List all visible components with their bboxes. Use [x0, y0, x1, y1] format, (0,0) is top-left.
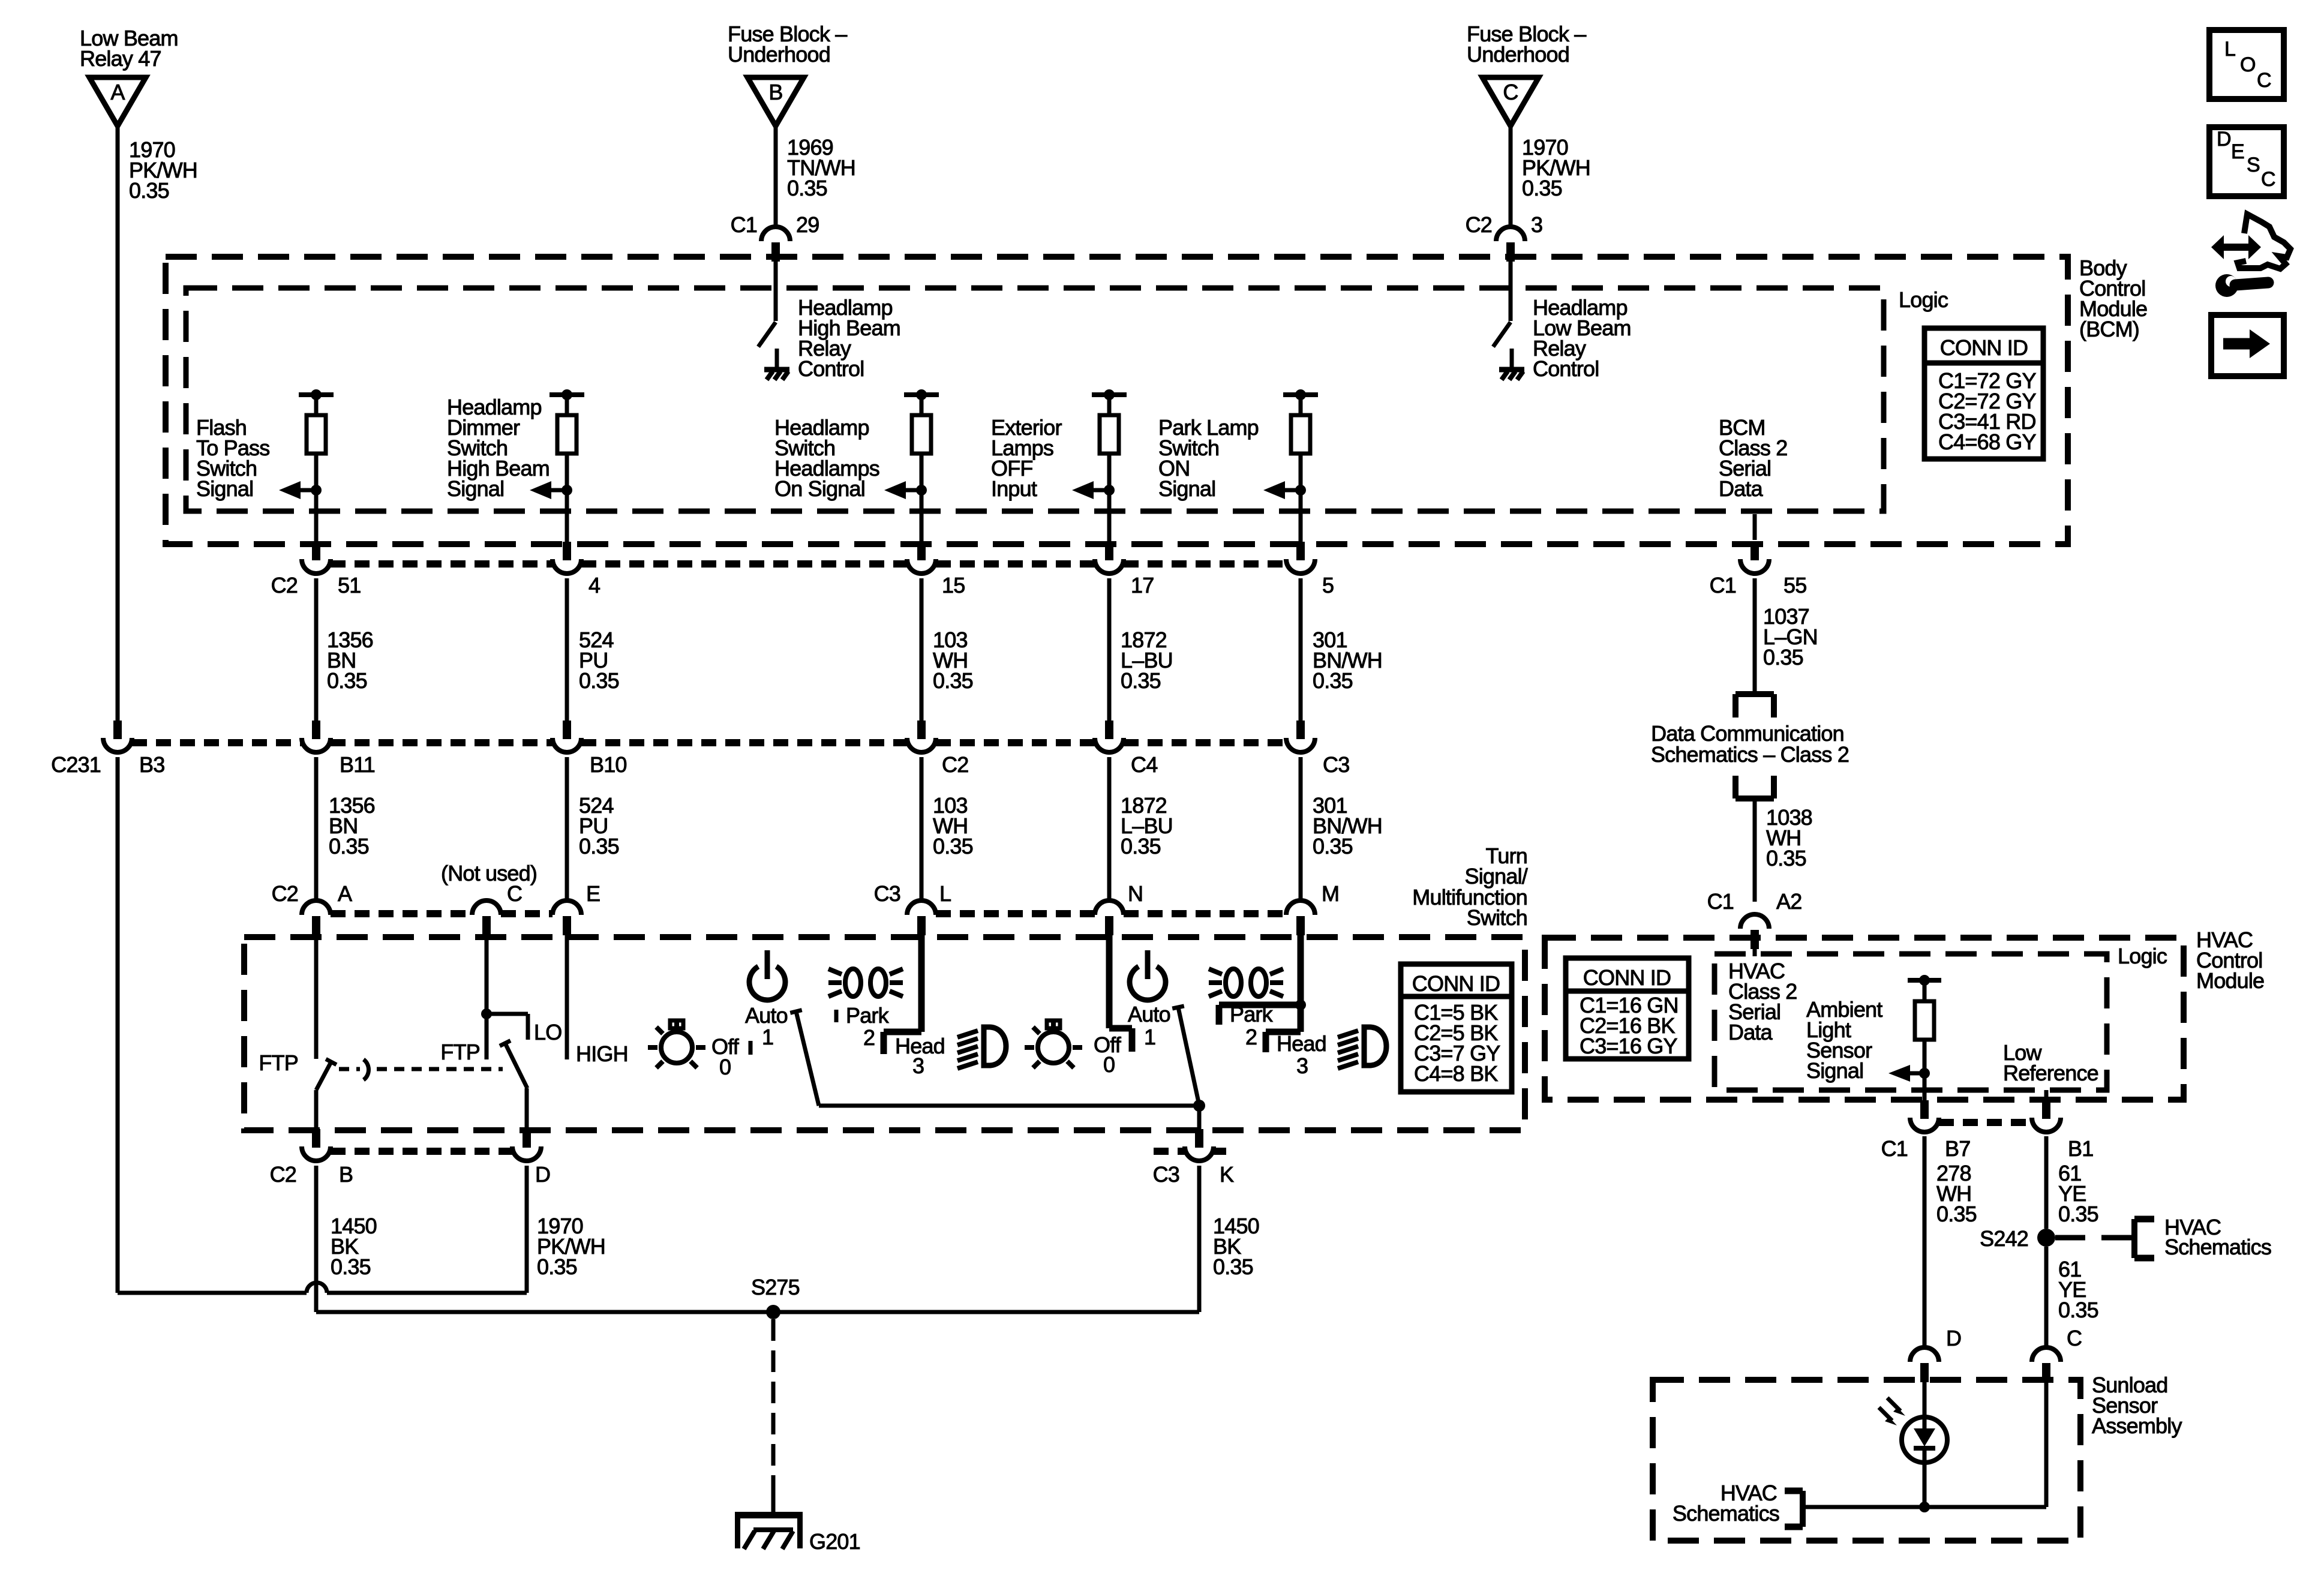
svg-text:D: D [2217, 128, 2231, 151]
svg-text:Reference: Reference [2003, 1061, 2098, 1085]
label Body Control Module (BCM) [2079, 256, 2147, 341]
svg-text:0.35: 0.35 [1213, 1254, 1253, 1279]
park icon switch 2 [1209, 969, 1283, 996]
BCM inner logic dashed box [186, 288, 1884, 511]
svg-text:D: D [1946, 1326, 1961, 1350]
BCM input resistor - flash to pass [196, 389, 334, 542]
wire 103 WH upper [921, 578, 973, 721]
svg-text:C: C [2261, 168, 2275, 191]
wire 1970 PK/WH from relay 47 (A) [118, 126, 197, 721]
beam icon switch 1 [957, 1027, 1006, 1068]
svg-text:C4: C4 [1131, 752, 1157, 777]
connector C231 pin C2 [907, 721, 968, 777]
svg-text:3: 3 [1531, 212, 1542, 237]
wire 1038 WH [1755, 798, 1812, 902]
svg-text:HIGH: HIGH [576, 1041, 628, 1066]
svg-text:CONN ID: CONN ID [1583, 965, 1671, 990]
CONN ID table BCM [1924, 328, 2043, 459]
svg-text:B3: B3 [139, 752, 164, 777]
svg-text:0.35: 0.35 [2058, 1298, 2098, 1322]
label Off 0 switch 1 [711, 1034, 750, 1079]
connector C231 pin B3 [51, 721, 164, 777]
svg-text:0.35: 0.35 [327, 668, 367, 693]
BCM input resistor - exterior lamps off [991, 389, 1127, 542]
svg-text:S242: S242 [1980, 1226, 2028, 1251]
connector MFS C3 pin L [874, 881, 951, 935]
connector HVAC C1 pin A2 [1707, 889, 1802, 949]
connector MFS pin N [1095, 881, 1143, 935]
wire 103 WH lower [921, 757, 973, 900]
svg-text:Signal: Signal [447, 476, 504, 501]
wire 301 BN/WH upper [1301, 578, 1382, 721]
svg-text:0: 0 [719, 1055, 731, 1079]
svg-text:0.35: 0.35 [579, 834, 619, 858]
svg-text:Control: Control [1533, 356, 1599, 381]
svg-text:C3: C3 [1153, 1162, 1179, 1187]
photodiode sunload sensor [1879, 1398, 1947, 1463]
svg-text:4: 4 [588, 573, 600, 598]
wire 1450 BK from pin K [1199, 1166, 1259, 1312]
park tick and label switch 1 [836, 1003, 890, 1050]
svg-text:C: C [2257, 69, 2271, 92]
label Logic (HVAC) [2118, 944, 2167, 968]
svg-text:Park: Park [1230, 1002, 1274, 1026]
two-way arrow hand-wrench icon [2211, 214, 2290, 297]
svg-text:Logic: Logic [1899, 287, 1948, 312]
svg-text:(Not used): (Not used) [441, 861, 537, 885]
label BCM Class 2 Serial Data [1719, 415, 1787, 501]
svg-text:L: L [939, 881, 951, 906]
Turn Signal/Multifunction Switch dashed box [244, 937, 1525, 1130]
svg-text:C: C [1503, 80, 1518, 104]
svg-text:Module: Module [2196, 968, 2264, 993]
svg-text:B: B [339, 1162, 353, 1187]
MFS bottom connector dotted line [331, 1148, 1226, 1155]
connector C1 pin 29 (BCM) [731, 212, 819, 262]
svg-text:55: 55 [1783, 573, 1806, 598]
svg-text:O: O [2240, 53, 2256, 76]
DESC icon box [2209, 127, 2284, 196]
label Auto 1 switch 2 [1128, 1002, 1170, 1049]
off contact switch 2 [1094, 934, 1132, 1077]
svg-text:0.35: 0.35 [2058, 1202, 2098, 1226]
connector BCM C1 pin 55 [1710, 542, 1807, 598]
svg-text:CONN ID: CONN ID [1940, 335, 2028, 360]
svg-text:B7: B7 [1945, 1136, 1970, 1161]
connector C231 pin C4 [1095, 721, 1157, 777]
svg-text:Signal: Signal [196, 476, 253, 501]
svg-text:C1: C1 [731, 212, 757, 237]
CONN ID table multifunction switch [1401, 964, 1512, 1092]
wire 278 WH [1924, 1136, 1977, 1347]
label HVAC Control Module [2196, 927, 2264, 993]
FTP switch blade [316, 1059, 337, 1090]
connector BCM pin 15 [907, 542, 965, 598]
svg-text:17: 17 [1131, 573, 1154, 598]
label Turn Signal/Multifunction Switch [1412, 843, 1527, 930]
connector MFS pin C (not used) [441, 861, 537, 935]
label HVAC Class 2 Serial Data [1728, 959, 1797, 1044]
wire 1037 L-GN [1755, 578, 1818, 694]
connector HVAC C1 pin B7 [1881, 1100, 1971, 1161]
svg-text:N: N [1128, 881, 1143, 906]
svg-text:M: M [1322, 881, 1339, 906]
svg-text:C2: C2 [272, 881, 298, 906]
wire A2 into HVAC logic [1753, 949, 1757, 956]
svg-text:0.35: 0.35 [329, 834, 369, 858]
svg-text:K: K [1220, 1162, 1234, 1187]
svg-text:3: 3 [912, 1053, 924, 1078]
ground drop dashed wire [771, 1319, 776, 1512]
wire 61 YE upper [2046, 1136, 2098, 1229]
splice S242 [1980, 1226, 2055, 1251]
dimmer HIGH contact wire E [567, 934, 628, 1066]
svg-text:C: C [2067, 1326, 2082, 1350]
connector C2 pin 3 (BCM) [1466, 212, 1543, 262]
park icon switch 1 [828, 969, 903, 996]
connector MFS pin E [553, 881, 600, 935]
mechanical linkage dashed [339, 1059, 503, 1080]
wire BCM serial data stub [1753, 514, 1757, 540]
svg-text:LO: LO [534, 1020, 562, 1044]
svg-text:Schematics – Class 2: Schematics – Class 2 [1651, 742, 1849, 767]
connector MFS pin D [512, 1129, 550, 1187]
svg-text:0.35: 0.35 [1522, 176, 1562, 200]
svg-text:0.35: 0.35 [1313, 668, 1353, 693]
svg-text:CONN ID: CONN ID [1412, 971, 1500, 996]
svg-text:0.35: 0.35 [1121, 668, 1161, 693]
svg-text:Logic: Logic [2118, 944, 2167, 968]
head contact switch 1 [884, 934, 945, 1078]
svg-text:C2: C2 [942, 752, 968, 777]
svg-text:Data: Data [1728, 1020, 1773, 1044]
svg-text:C2: C2 [1466, 212, 1492, 237]
svg-text:C1: C1 [1707, 889, 1734, 914]
wire 524 PU lower [567, 757, 619, 900]
svg-text:15: 15 [942, 573, 965, 598]
svg-text:0.35: 0.35 [1936, 1202, 1977, 1226]
svg-text:C4=8 BK: C4=8 BK [1414, 1061, 1498, 1086]
svg-text:Underhood: Underhood [1467, 42, 1569, 67]
svg-text:S: S [2247, 154, 2260, 176]
label Sunload Sensor Assembly [2092, 1373, 2182, 1438]
connector sunload pin C [2032, 1326, 2082, 1382]
svg-text:Underhood: Underhood [728, 42, 830, 67]
off-page reference sunload to HVAC schematics [1673, 1481, 1803, 1527]
label Data Communication Schematics [1651, 721, 1849, 767]
headlamp low beam relay control driver [1493, 257, 1631, 381]
connector BCM C2 pin 51 [271, 542, 361, 598]
bulb icon switch 1 [648, 1019, 705, 1068]
Sunload Sensor Assembly dashed box [1653, 1380, 2080, 1541]
wire 301 BN/WH lower [1301, 757, 1382, 900]
connector HVAC pin B1 [2032, 1100, 2093, 1161]
svg-text:B: B [768, 80, 782, 104]
connector MFS C3 pin K [1153, 1129, 1234, 1187]
svg-text:B1: B1 [2068, 1136, 2093, 1161]
svg-text:Head: Head [1277, 1031, 1326, 1056]
svg-text:0.35: 0.35 [787, 176, 827, 200]
FTP switch wire A [314, 934, 319, 1059]
wire sunload pin C down [2044, 1382, 2049, 1507]
power feed triangle A - Low Beam Relay 47 [80, 26, 178, 126]
svg-text:On Signal: On Signal [774, 476, 865, 501]
svg-text:B11: B11 [340, 752, 375, 777]
label Logic (BCM) [1899, 287, 1948, 312]
dimmer LO branch [481, 1008, 562, 1044]
svg-text:Assembly: Assembly [2092, 1413, 2182, 1438]
svg-text:A2: A2 [1776, 889, 1801, 914]
svg-text:A: A [110, 80, 125, 104]
off-page bracket from data comm (bottom) [1736, 776, 1774, 798]
svg-text:Control: Control [798, 356, 864, 381]
svg-text:0.35: 0.35 [129, 178, 169, 203]
connector C231 pin B10 [553, 721, 627, 777]
svg-text:C2: C2 [270, 1162, 296, 1187]
headlamp high beam relay control driver [758, 257, 900, 381]
wire 1970 run with hop over 1450 [118, 1283, 527, 1293]
svg-text:Input: Input [991, 476, 1037, 501]
svg-text:0.35: 0.35 [933, 834, 973, 858]
svg-text:Auto: Auto [1128, 1002, 1170, 1026]
svg-text:51: 51 [338, 573, 361, 598]
svg-text:1: 1 [1144, 1025, 1155, 1049]
connector sunload pin D [1910, 1326, 1961, 1382]
wire 1970 PK/WH from pin D [527, 1166, 605, 1293]
wire 1450 run to splice S275 [316, 1310, 1199, 1314]
svg-text:S275: S275 [751, 1275, 800, 1299]
connector MFS C2 pin A [272, 881, 352, 935]
power feed triangle C - Fuse Block Underhood [1467, 22, 1586, 126]
svg-text:A: A [338, 881, 352, 906]
wire A to lower left [116, 757, 120, 1293]
head contact switch 2 [1266, 1031, 1326, 1078]
wire 1872 L-BU lower [1109, 757, 1173, 900]
label FTP middle [440, 1040, 480, 1064]
svg-text:C2: C2 [271, 573, 298, 598]
svg-text:Schematics: Schematics [1673, 1501, 1779, 1526]
connector BCM pin 4 [553, 542, 600, 598]
svg-text:B10: B10 [590, 752, 627, 777]
svg-text:G201: G201 [809, 1529, 860, 1554]
svg-text:C231: C231 [51, 752, 101, 777]
power icon switch 1 [749, 950, 785, 1000]
bulb icon switch 2 [1025, 1019, 1082, 1068]
svg-text:(BCM): (BCM) [2079, 317, 2139, 341]
wire dimmer blade to pin D [525, 1088, 529, 1131]
svg-text:FTP: FTP [259, 1050, 298, 1075]
forward arrow icon box [2211, 315, 2284, 376]
svg-text:Schematics: Schematics [2164, 1235, 2271, 1259]
svg-text:D: D [535, 1162, 550, 1187]
svg-text:5: 5 [1322, 573, 1334, 598]
beam icon switch 2 [1338, 1027, 1386, 1068]
svg-text:E: E [586, 881, 600, 906]
rotary blade switch 2 [1172, 1006, 1199, 1105]
switch pole wire [819, 1100, 1205, 1131]
svg-text:1: 1 [762, 1025, 773, 1049]
connector MFS C2 pin B [270, 1129, 353, 1187]
svg-text:Signal: Signal [1158, 476, 1215, 501]
svg-text:C1: C1 [1881, 1136, 1908, 1161]
BCM connector row dotted line [331, 560, 1286, 568]
dimmer switch blade [500, 1041, 527, 1088]
svg-text:C3: C3 [1323, 752, 1349, 777]
wire 1970 PK/WH from fuse block (C) [1511, 126, 1590, 227]
svg-text:0.35: 0.35 [537, 1254, 577, 1279]
svg-text:Signal: Signal [1806, 1058, 1863, 1083]
svg-text:3: 3 [1296, 1053, 1308, 1078]
rotary blade switch 1 [790, 1010, 819, 1106]
svg-text:0.35: 0.35 [579, 668, 619, 693]
svg-text:L: L [2224, 38, 2235, 61]
svg-text:0: 0 [1103, 1052, 1115, 1077]
label FTP left [259, 1050, 298, 1075]
LOC icon box [2209, 30, 2284, 99]
low reference stub [2003, 1040, 2098, 1103]
BCM outer dashed box [166, 257, 2068, 544]
label Auto 1 switch 1 [745, 1003, 788, 1049]
ground G201 [735, 1512, 860, 1554]
connector MFS pin M [1286, 881, 1339, 935]
svg-text:0.35: 0.35 [1766, 846, 1806, 870]
wire 61 YE lower [2046, 1247, 2098, 1347]
wire sunload diode top [1923, 1382, 1927, 1418]
wire 1872 L-BU upper [1109, 578, 1173, 721]
svg-text:2: 2 [1245, 1025, 1257, 1049]
svg-text:C3: C3 [874, 881, 900, 906]
svg-text:C4=68 GY: C4=68 GY [1938, 430, 2036, 454]
svg-text:Data: Data [1719, 476, 1764, 501]
svg-text:Auto: Auto [745, 1003, 788, 1028]
svg-text:0.35: 0.35 [1313, 834, 1353, 858]
wire 1969 TN/WH from fuse block (B) [776, 126, 855, 227]
ambient light sensor pullup [1806, 975, 1941, 1104]
svg-text:0.35: 0.35 [933, 668, 973, 693]
splice S275 [751, 1275, 800, 1319]
multifunction switch connector dotted line [331, 910, 1286, 917]
svg-text:Park: Park [846, 1003, 890, 1028]
dimmer wire from pin C [485, 934, 489, 1059]
off-page bracket to data comm (top) [1736, 694, 1774, 718]
wire FTP switch to pin B [314, 1090, 319, 1131]
wire 524 PU upper [567, 578, 619, 721]
HVAC connector dotted line [1939, 1119, 2032, 1126]
wire sunload diode bottom [1919, 1463, 1930, 1512]
off-page reference S242 to HVAC schematics [2055, 1215, 2271, 1259]
in-line connector C231 dotted line [132, 739, 1286, 746]
svg-text:2: 2 [863, 1025, 875, 1050]
svg-text:C1: C1 [1710, 573, 1736, 598]
power icon switch 2 [1130, 950, 1166, 1000]
svg-text:29: 29 [796, 212, 819, 237]
wire 1356 BN lower [316, 757, 375, 900]
svg-text:0.35: 0.35 [331, 1254, 371, 1279]
connector C231 pin C3 [1286, 721, 1349, 777]
svg-text:0.35: 0.35 [1121, 834, 1161, 858]
CONN ID table HVAC [1566, 958, 1689, 1059]
HVAC Control Module outer dashed box [1545, 938, 2184, 1100]
BCM input resistor - headlamps on [774, 389, 939, 542]
wire sunload common [1803, 1505, 2046, 1509]
BCM input resistor - dimmer high beam [447, 389, 584, 542]
wire 1450 BK from pin B [316, 1166, 377, 1312]
park contact switch 2 [1219, 934, 1306, 1049]
svg-text:0.35: 0.35 [1763, 645, 1803, 670]
HVAC logic inner dashed box [1715, 954, 2107, 1090]
connector BCM pin 5 [1286, 542, 1334, 598]
wire 1356 BN upper [316, 578, 373, 721]
svg-text:Relay 47: Relay 47 [80, 46, 161, 71]
svg-text:Switch: Switch [1467, 905, 1527, 930]
BCM input resistor - park lamp on [1158, 389, 1318, 542]
power feed triangle B - Fuse Block Underhood [728, 22, 847, 126]
svg-text:E: E [2231, 140, 2244, 163]
connector C231 pin B11 [302, 721, 375, 777]
connector BCM pin 17 [1095, 542, 1154, 598]
svg-text:C3=16 GY: C3=16 GY [1580, 1034, 1677, 1058]
svg-text:FTP: FTP [440, 1040, 480, 1064]
